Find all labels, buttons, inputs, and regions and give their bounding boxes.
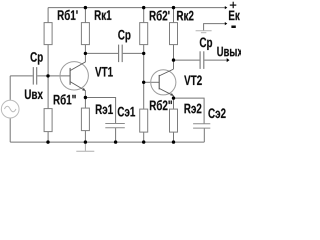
node VT2 base	[142, 81, 145, 84]
label Rб1'	[58, 10, 78, 20]
label Ек	[229, 11, 240, 21]
label Сэ2	[208, 108, 225, 118]
resistor Rэ2	[170, 109, 178, 132]
node top rail Rк2	[172, 6, 175, 9]
wire Rэ1 bottom lead	[84, 131, 86, 143]
wire Rб2' top lead	[143, 8, 145, 23]
resistor Rб2"	[140, 109, 148, 132]
wire Сэ2 bottom lead	[203, 128, 205, 142]
node bottom rail Rб1"	[46, 140, 49, 143]
label VT1	[95, 67, 113, 77]
wire VT2 emitter vertical	[173, 96, 175, 110]
resistor Rк2	[170, 23, 178, 45]
label Rк2	[177, 11, 193, 21]
resistor Rк1	[81, 23, 89, 45]
label Rб1"	[54, 94, 76, 104]
label Rк1	[95, 10, 112, 19]
wire Rб1' top lead	[47, 8, 49, 23]
wire input cap to VT1 base	[37, 75, 70, 77]
resistor Rб2'	[140, 23, 148, 45]
wire Сэ1 bottom lead	[115, 128, 117, 142]
capacitor Cp interstage plates	[119, 45, 123, 63]
wire top rail	[48, 7, 225, 9]
capacitor Сэ1 plates	[105, 124, 125, 128]
label plus sign	[230, 2, 237, 9]
wire Rк2 top lead	[173, 8, 175, 23]
label Rэ1	[96, 105, 113, 115]
wire Rк1 top lead	[84, 8, 86, 23]
node VT1 base	[46, 74, 49, 77]
label Uвх	[25, 90, 43, 100]
node VT2 emitter	[172, 96, 175, 99]
node top rail Rк1	[84, 6, 87, 9]
wire VT1 emitter vertical	[84, 91, 86, 109]
node VT2 collector	[172, 58, 175, 61]
node VT1 collector	[84, 52, 87, 55]
resistor Rэ1	[81, 108, 89, 131]
capacitor Cp output plates	[200, 51, 204, 69]
transistor VT1	[60, 62, 88, 91]
capacitor Сэ2 plates	[193, 124, 210, 128]
label VT2	[184, 75, 202, 85]
wire Rб2' lead through nodes to Rб2"	[143, 45, 145, 110]
label Rэ2	[185, 104, 202, 114]
node bottom rail Rб2"	[142, 140, 145, 143]
wire Rб2" bottom lead	[143, 132, 145, 142]
terminal arrow Ек plus	[225, 6, 228, 9]
wire Rб1" bottom lead	[47, 132, 49, 143]
node top rail Rб2'	[142, 6, 145, 9]
wire VT1 emitter node to Сэ1	[85, 98, 115, 124]
wire Rк1 to VT1 collector	[84, 45, 86, 63]
label Cp input	[31, 52, 43, 65]
label Cp interstage	[118, 30, 130, 42]
wire Rк2 to VT2 collector	[173, 45, 175, 69]
node VT1 emitter	[84, 96, 87, 99]
wire input left segment	[10, 75, 33, 77]
node bottom rail Rэ1 ground	[84, 140, 87, 143]
wire VT1 collector node to coupling cap	[85, 52, 118, 54]
wire Ек minus lead	[204, 24, 226, 31]
wire VT2 emitter node to Сэ2	[174, 98, 205, 124]
ground at bottom rail	[76, 142, 94, 151]
label Rб2'	[150, 10, 170, 20]
transistor VT2	[151, 69, 176, 96]
wire Rб1' lead through base node to Rб1"	[47, 45, 49, 109]
capacitor Cp input plates	[33, 67, 36, 85]
terminal arrow Ек minus	[225, 22, 228, 25]
node bottom rail Сэ1	[114, 140, 117, 143]
wire source bottom lead	[9, 118, 11, 142]
label Cp output	[200, 38, 212, 51]
wire source top lead	[9, 76, 11, 100]
resistor Rб1"	[44, 109, 52, 132]
node bottom rail Rэ2	[172, 140, 175, 143]
terminal arrow Uвых	[227, 58, 230, 62]
wire VT2 collector node to output cap	[174, 59, 200, 61]
wire VT2 base lead	[144, 81, 160, 83]
label Сэ1	[118, 107, 135, 117]
ground at Ек minus	[196, 31, 212, 33]
wire coupling cap to Rб2' column	[123, 52, 144, 54]
wire Rэ2 bottom lead	[173, 132, 175, 142]
wire bottom rail	[10, 141, 204, 143]
wire output cap to Uвых terminal	[204, 59, 228, 61]
label Rб2"	[150, 100, 172, 110]
label minus sign	[231, 26, 235, 29]
node Rб2' coupling junction	[142, 52, 145, 55]
source Uвх sine generator	[1, 100, 19, 118]
label Uвых	[217, 47, 242, 57]
resistor Rб1'	[44, 23, 52, 45]
